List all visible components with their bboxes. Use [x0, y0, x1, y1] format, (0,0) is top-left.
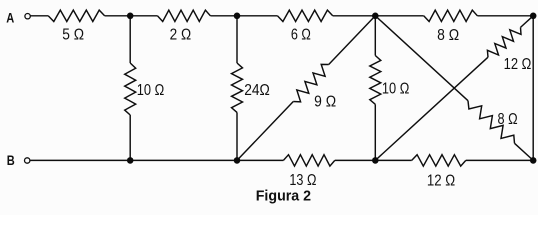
svg-text:8 Ω: 8 Ω — [437, 27, 459, 44]
svg-text:9 Ω: 9 Ω — [314, 93, 336, 110]
svg-text:Figura 2: Figura 2 — [256, 188, 311, 205]
svg-text:6 Ω: 6 Ω — [291, 26, 311, 43]
svg-text:13 Ω: 13 Ω — [289, 172, 316, 189]
svg-text:8 Ω: 8 Ω — [498, 111, 518, 128]
svg-text:10 Ω: 10 Ω — [137, 82, 165, 99]
svg-text:B: B — [7, 152, 15, 168]
svg-text:12 Ω: 12 Ω — [427, 173, 455, 190]
svg-text:12 Ω: 12 Ω — [504, 56, 532, 73]
svg-text:A: A — [6, 9, 14, 25]
svg-text:10 Ω: 10 Ω — [382, 81, 409, 98]
svg-text:2 Ω: 2 Ω — [170, 26, 192, 43]
svg-text:5 Ω: 5 Ω — [62, 26, 84, 43]
svg-text:24Ω: 24Ω — [244, 82, 270, 99]
